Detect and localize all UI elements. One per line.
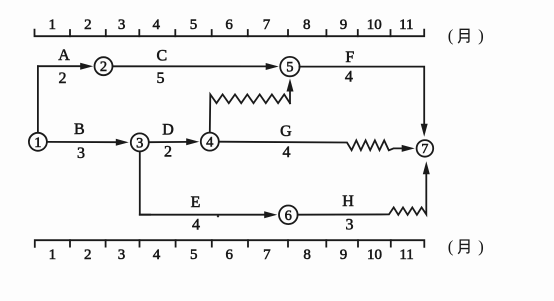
svg-text:2: 2 xyxy=(164,144,172,161)
activity C duration 5 xyxy=(157,70,165,87)
activity D arrow xyxy=(149,138,199,145)
svg-text:): ) xyxy=(478,26,484,45)
node 7 xyxy=(417,140,434,157)
activity F arrow (node5 to node7 via corner) xyxy=(300,67,428,137)
node 3 xyxy=(131,133,149,151)
svg-text:11: 11 xyxy=(399,247,413,263)
svg-text:11: 11 xyxy=(399,17,413,33)
svg-text:6: 6 xyxy=(285,208,292,224)
svg-text:2: 2 xyxy=(84,247,92,263)
svg-text:7: 7 xyxy=(263,17,271,33)
activity H duration 3 xyxy=(346,217,354,234)
node 2 xyxy=(95,57,113,75)
svg-text:5: 5 xyxy=(157,70,165,87)
svg-text:(: ( xyxy=(448,26,454,45)
top ruler unit label (月) xyxy=(448,26,484,45)
svg-text:2: 2 xyxy=(59,70,67,87)
svg-text:4: 4 xyxy=(192,217,200,234)
svg-text:9: 9 xyxy=(340,17,348,33)
svg-text:10: 10 xyxy=(367,247,382,263)
stray ink dot on E line xyxy=(217,215,219,217)
bottom ruler xyxy=(35,240,425,247)
svg-text:B: B xyxy=(74,121,85,138)
svg-text:6: 6 xyxy=(225,247,233,263)
activity B duration 3 xyxy=(77,145,85,162)
activity G label xyxy=(280,123,292,140)
free float zigzag from node 4 up to node 5 xyxy=(210,79,294,133)
svg-text:9: 9 xyxy=(340,247,348,263)
svg-text:8: 8 xyxy=(303,17,311,33)
node 6 xyxy=(279,206,298,225)
svg-text:3: 3 xyxy=(118,247,126,263)
svg-text:C: C xyxy=(156,47,167,64)
activity B label xyxy=(74,121,85,138)
svg-text:F: F xyxy=(345,49,354,66)
activity E arrow xyxy=(140,211,277,218)
activity C label xyxy=(156,47,167,64)
svg-text:5: 5 xyxy=(190,247,198,263)
activity H label xyxy=(342,193,354,210)
svg-text:D: D xyxy=(162,121,174,138)
svg-text:3: 3 xyxy=(346,217,354,234)
svg-text:1: 1 xyxy=(34,135,41,151)
activity E duration 4 xyxy=(192,217,200,234)
svg-text:4: 4 xyxy=(345,69,353,86)
bottom ruler unit label (月) xyxy=(448,237,484,256)
activity B arrow xyxy=(47,139,129,146)
svg-text:6: 6 xyxy=(225,17,233,33)
svg-text:1: 1 xyxy=(48,17,56,33)
wire from node 1 up to activity A row xyxy=(37,66,39,133)
svg-text:1: 1 xyxy=(49,247,57,263)
svg-text:7: 7 xyxy=(263,247,271,263)
svg-text:4: 4 xyxy=(153,247,161,263)
node 1 xyxy=(29,133,47,151)
top ruler xyxy=(35,30,425,37)
svg-text:3: 3 xyxy=(118,17,126,33)
svg-text:3: 3 xyxy=(136,135,143,151)
activity C arrow xyxy=(113,63,279,70)
svg-text:E: E xyxy=(191,194,201,211)
activity A arrow xyxy=(38,63,93,70)
svg-text:(: ( xyxy=(448,237,454,256)
svg-text:4: 4 xyxy=(153,17,161,33)
activity E label xyxy=(191,194,201,211)
node 5 xyxy=(280,57,299,76)
svg-text:H: H xyxy=(342,193,354,210)
svg-text:2: 2 xyxy=(100,59,107,75)
activity G arrow with free float zigzag into node 7 xyxy=(219,140,415,152)
svg-text:4: 4 xyxy=(283,144,291,161)
activity D label xyxy=(162,121,174,138)
svg-text:G: G xyxy=(280,123,292,140)
svg-text:A: A xyxy=(58,47,70,64)
node 4 xyxy=(201,133,219,151)
svg-text:7: 7 xyxy=(421,142,428,157)
svg-text:5: 5 xyxy=(190,17,198,33)
activity G duration 4 xyxy=(283,144,291,161)
activity A duration 2 xyxy=(59,70,67,87)
activity F duration 4 xyxy=(345,69,353,86)
activity H arrow with free float zigzag up into node 7 xyxy=(298,161,430,215)
svg-text:8: 8 xyxy=(303,247,311,263)
activity A label xyxy=(58,47,70,64)
top ruler numbers xyxy=(48,17,413,33)
activity D duration 2 xyxy=(164,144,172,161)
bottom ruler numbers xyxy=(49,247,414,263)
svg-text:4: 4 xyxy=(206,135,214,151)
activity F label xyxy=(345,49,354,66)
svg-text:3: 3 xyxy=(77,145,85,162)
wire from node 3 down to activity E row xyxy=(140,152,150,215)
svg-text:5: 5 xyxy=(286,60,293,76)
svg-text:2: 2 xyxy=(84,17,92,33)
svg-text:): ) xyxy=(478,237,484,256)
svg-text:10: 10 xyxy=(367,17,382,33)
